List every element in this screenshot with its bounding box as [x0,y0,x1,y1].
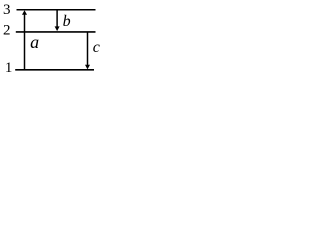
level 1 label "1" [5,60,12,76]
svg-text:3: 3 [3,2,11,18]
transition b label "b" [63,13,71,30]
transition arrow b: down from level 3 to level 2 (shaft) [56,10,58,27]
transition arrow a: up from level 1 to level 3 (shaft) [24,14,26,70]
level 2 label "2" [3,23,11,39]
svg-text:a: a [30,32,39,52]
svg-text:b: b [63,13,71,30]
svg-text:1: 1 [5,60,12,76]
svg-text:c: c [93,39,100,56]
transition a label "a" [30,32,39,52]
transition arrow a arrowhead (up, tip at level 3) [22,10,27,15]
level 2 line [16,31,96,33]
svg-text:2: 2 [3,23,11,39]
transition arrow b arrowhead (down, tip at level 2) [55,26,60,31]
transition arrow c arrowhead (down, tip at level 1) [85,65,90,70]
transition arrow c: down from level 2 to level 1 (shaft) [87,32,89,65]
level 3 line [17,9,96,11]
transition c label "c" [93,39,100,56]
level 3 label "3" [3,2,11,18]
level 1 line [15,69,94,71]
